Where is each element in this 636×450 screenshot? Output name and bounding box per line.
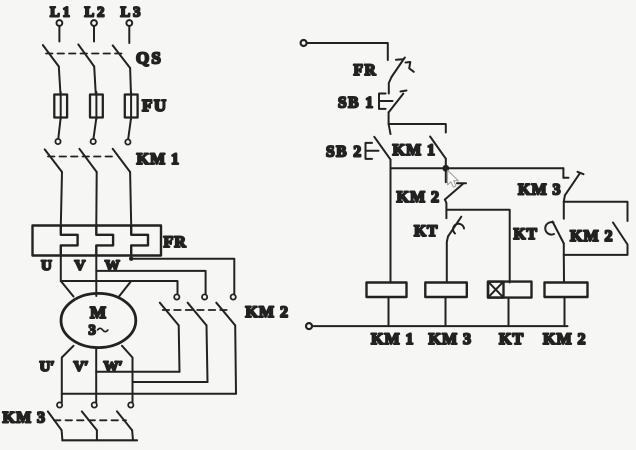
contactor KM1 main pole 1	[45, 139, 62, 226]
wire bottom rail	[312, 325, 568, 327]
node control N terminal	[306, 323, 312, 329]
contact KM3 aux (NO)	[563, 172, 583, 202]
contactor KM1 main pole 3	[113, 139, 132, 225]
node L2	[85, 5, 108, 42]
wire U phase to funnel	[60, 256, 62, 282]
switch QS pole 3	[113, 45, 131, 94]
svg-text:KT: KT	[499, 331, 524, 348]
svg-text:QS: QS	[136, 49, 163, 68]
pushbutton SB2 (NO start)	[366, 137, 391, 169]
svg-text:L1: L1	[50, 5, 73, 21]
wire motor W' lead	[122, 346, 133, 403]
junction W tap dot	[129, 257, 133, 261]
svg-text:SB 2: SB 2	[326, 144, 363, 161]
svg-text:U′: U′	[40, 359, 55, 375]
QS gang dashed link	[46, 53, 122, 55]
mouse cursor	[448, 170, 459, 187]
FR heater element 2	[96, 226, 113, 256]
svg-text:V: V	[75, 258, 86, 274]
node L3	[121, 5, 144, 44]
svg-text:KT: KT	[414, 223, 438, 240]
svg-text:KM 1: KM 1	[137, 151, 181, 168]
coil KT with X box	[488, 282, 532, 298]
svg-text:V′: V′	[74, 359, 89, 375]
wire branch C to KM2 coil	[563, 255, 565, 283]
wire control top feed	[307, 43, 388, 60]
svg-text:KT: KT	[514, 226, 538, 243]
svg-text:KM 2: KM 2	[570, 228, 614, 245]
KM1 gang dashed link	[48, 156, 116, 158]
fuse FU 1	[54, 92, 67, 139]
svg-text:KM 1: KM 1	[371, 331, 415, 348]
contact KT (NO delayed closing)	[545, 202, 564, 255]
wire junction1 left stub	[389, 124, 391, 134]
wire funnel top to KM2 pole 1	[61, 281, 178, 294]
wire funnel right diagonal	[119, 281, 131, 297]
wire motor V' lead	[95, 348, 97, 403]
fuse FU 3	[125, 92, 138, 139]
svg-text:FR: FR	[164, 234, 187, 251]
coil KM1	[367, 283, 407, 298]
coil KM3	[425, 283, 467, 298]
switch QS pole 1	[43, 45, 61, 94]
thermal contact FR (NC)	[389, 58, 414, 94]
fuse FU 2	[90, 92, 103, 139]
wire V tap to KM2 pole 2	[96, 271, 205, 294]
contactor KM3 pole 1	[48, 402, 63, 440]
contactor KM1 main pole 2	[79, 139, 96, 226]
node control L terminal	[301, 40, 307, 46]
node L1	[50, 5, 73, 42]
coil KM2	[545, 283, 588, 298]
contactor KM2 pole 3	[216, 294, 236, 393]
pushbutton SB1 (NC stop)	[379, 91, 407, 125]
svg-text:3: 3	[89, 323, 96, 339]
switch QS pole 2	[78, 44, 96, 94]
wire V' to KM2 pole 1 bottom	[96, 371, 179, 373]
wire motor U' lead	[62, 346, 74, 403]
wire KM2-arm top link	[564, 202, 628, 221]
wire funnel left diagonal	[61, 281, 74, 297]
contact KM1 aux (NO self-hold)	[430, 137, 446, 169]
wire branch A to KM1 coil	[390, 168, 392, 282]
FR heater element 1	[61, 226, 78, 256]
wire V phase into motor	[95, 256, 97, 297]
svg-text:FR: FR	[354, 62, 378, 79]
contactor KM3 pole 3	[117, 402, 133, 440]
contact KT (NC delayed opening)	[446, 210, 464, 283]
wire KM3 coil to rail	[445, 297, 447, 326]
contact KM2 aux (NO self-hold)	[564, 223, 628, 255]
svg-text:L2: L2	[85, 5, 108, 21]
svg-text:L3: L3	[121, 5, 144, 21]
svg-text:KM 2: KM 2	[245, 304, 289, 321]
junction dot	[442, 165, 449, 172]
contactor KM2 pole 2	[188, 294, 208, 382]
svg-text:FU: FU	[142, 96, 168, 115]
wire KM3 star shorting bar	[62, 439, 137, 441]
svg-text:KM 1: KM 1	[393, 142, 437, 159]
thermal relay FR box	[33, 226, 162, 256]
svg-text:KM 2: KM 2	[397, 189, 441, 206]
motor M 3~	[61, 293, 136, 347]
svg-text:U: U	[41, 258, 52, 274]
contactor KM3 pole 2	[82, 402, 97, 440]
wire KM2 coil to rail	[564, 297, 566, 326]
wire KM1 coil to rail	[388, 297, 390, 326]
contactor KM2 pole 1	[160, 294, 180, 371]
svg-text:KM 3: KM 3	[518, 182, 562, 199]
svg-text:SB 1: SB 1	[338, 95, 375, 112]
svg-text:KM 2: KM 2	[543, 331, 587, 348]
wire W to KM2 pole 3	[131, 256, 234, 295]
wire U' to KM2 pole 3 bottom	[62, 393, 236, 395]
wire KT coil feed	[446, 210, 509, 283]
svg-text:M: M	[90, 303, 106, 322]
KM2 gang dashed link	[163, 309, 228, 311]
wire KT coil to rail	[508, 298, 510, 327]
contact KM2 aux (NC interlock)	[445, 171, 466, 210]
svg-text:KM 3: KM 3	[3, 410, 47, 427]
KM3 gang dashed link	[54, 419, 126, 421]
wire junction2 bus	[391, 167, 564, 169]
wire branch C drop	[562, 168, 564, 178]
svg-text:KM 3: KM 3	[429, 331, 473, 348]
wire W' to KM2 pole 2 bottom	[133, 381, 208, 383]
FR heater element 3	[131, 226, 148, 256]
wire junction1 branch	[389, 124, 446, 133]
